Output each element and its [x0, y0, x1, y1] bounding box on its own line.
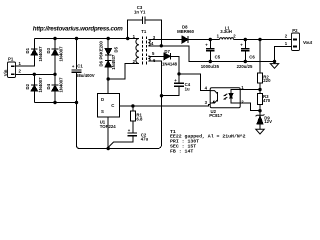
node T1 note: [170, 129, 246, 155]
svg-text:1N4937: 1N4937: [111, 54, 116, 70]
node rail-C1: [75, 37, 78, 40]
resistor R3 470: [258, 90, 271, 111]
capacitor C4 1u: [162, 74, 191, 96]
node rail-R2: [258, 38, 261, 41]
node drain: [107, 77, 110, 80]
wire bridge bottom rail: [34, 102, 76, 104]
svg-text:1N4007: 1N4007: [59, 77, 64, 93]
node C4-return: [160, 94, 163, 97]
diode D8 MBR960: [177, 25, 219, 43]
connector P1: [8, 57, 22, 78]
svg-text:D7: D7: [164, 49, 170, 54]
node bottom-C1: [75, 101, 78, 104]
diode D2 1N4007: [25, 74, 43, 102]
svg-text:P1: P1: [8, 57, 14, 62]
wire P1 pin1 to bridge: [16, 55, 35, 66]
svg-text:D6: D6: [99, 60, 104, 66]
wire secondary pin4 return: [148, 46, 274, 62]
svg-text:C: C: [111, 103, 114, 108]
diode D4 1N4007: [46, 74, 64, 102]
node return-gnd: [273, 60, 276, 63]
svg-text:Vout: Vout: [303, 40, 313, 45]
feedback winding 5-6: [148, 56, 150, 61]
diode D6 1N4937: [99, 54, 116, 79]
op U1 TOP224: [97, 94, 119, 129]
node return-C6: [244, 60, 247, 63]
node D8-C5: [209, 38, 212, 41]
svg-text:D: D: [101, 97, 104, 102]
wire opto pin1 to R2: [240, 89, 260, 91]
node R3-D9-opto: [258, 109, 261, 112]
svg-text:1N4007: 1N4007: [59, 46, 64, 62]
svg-text:PC817: PC817: [209, 113, 223, 118]
svg-text:C5: C5: [215, 54, 221, 59]
svg-text:12V: 12V: [264, 119, 272, 124]
svg-text:S: S: [101, 109, 104, 114]
node R2-R3-opto: [258, 88, 261, 91]
capacitor C1 68u/400V: [72, 39, 95, 103]
capacitor C6 220u/25: [237, 40, 256, 69]
led: [231, 90, 240, 94]
optocoupler U2 PC817: [205, 85, 245, 118]
svg-text:1000u/35: 1000u/35: [201, 64, 220, 69]
svg-text:FB : 14T: FB : 14T: [170, 148, 193, 154]
diode D3 1N4007: [46, 39, 64, 75]
wire U1 source pin: [107, 117, 109, 149]
svg-text:D1: D1: [25, 47, 30, 53]
svg-text:68u/400V: 68u/400V: [76, 73, 95, 78]
wire top rail primary side: [34, 38, 139, 40]
resistor R1 6.8: [130, 106, 143, 133]
connector P2: [285, 28, 300, 51]
svg-text:470: 470: [263, 98, 271, 103]
wire P2 pin1: [275, 47, 292, 62]
light arrows: [224, 94, 228, 96]
wire U1 control pin: [120, 105, 211, 106]
secondary winding 3-4: [148, 40, 150, 46]
diode D7 1N4148: [148, 49, 179, 74]
capacitor C2 47u: [108, 128, 148, 148]
node rail-D5: [107, 37, 110, 40]
svg-text:6.8: 6.8: [136, 116, 143, 121]
svg-text:Vin: Vin: [3, 69, 8, 76]
node pin4-C3: [160, 44, 163, 47]
node C4 top: [177, 72, 180, 75]
node rail-D3: [53, 37, 56, 40]
svg-text:MBR960: MBR960: [177, 29, 195, 34]
node rail-C3: [126, 37, 129, 40]
svg-text:D4: D4: [46, 83, 51, 89]
node pin2-D2: [33, 73, 36, 76]
capacitor C3 1n Y1: [128, 5, 162, 46]
zener D9 12V: [256, 111, 272, 130]
svg-text:1u: 1u: [185, 86, 190, 91]
wire opto pin2 to R3: [240, 103, 260, 111]
svg-text:http://restovarius.wordpress.c: http://restovarius.wordpress.com: [33, 25, 123, 32]
diode D1 1N4007: [25, 39, 43, 62]
resistor R2 220: [258, 40, 271, 90]
svg-text:T1: T1: [141, 29, 147, 34]
svg-text:47u: 47u: [141, 136, 149, 141]
svg-text:1n Y1: 1n Y1: [134, 9, 146, 14]
wire opto pin4 riser: [179, 74, 210, 91]
node bottom-D4: [53, 101, 56, 104]
svg-text:1N4007: 1N4007: [38, 46, 43, 62]
phototransistor: [210, 91, 217, 94]
wire secondary pin3 to D8: [148, 39, 182, 41]
svg-text:D3: D3: [46, 47, 51, 53]
svg-text:C1: C1: [77, 64, 83, 69]
node return-C5: [209, 60, 212, 63]
svg-text:P6KE200: P6KE200: [99, 40, 104, 59]
svg-text:220u/25: 220u/25: [237, 64, 253, 69]
wire feedback pin6: [148, 60, 161, 62]
transil D5 P6KE200: [99, 39, 119, 60]
node L1-C6: [244, 38, 247, 41]
ground output: [270, 62, 278, 69]
wire primary pin2 to drain: [108, 64, 139, 80]
transformer T1: [133, 29, 156, 66]
primary winding: [136, 39, 139, 64]
node control-R1: [131, 104, 134, 107]
node pin2-D3D4: [53, 73, 56, 76]
wire L1 to P2: [234, 39, 292, 41]
wire P1 pin2 to bridge: [16, 73, 56, 75]
svg-text:D5: D5: [113, 46, 118, 52]
svg-text:1N4148: 1N4148: [162, 61, 178, 66]
capacitor C5 1000u/35: [201, 40, 221, 69]
svg-text:220: 220: [263, 78, 271, 83]
svg-text:1N4007: 1N4007: [38, 77, 43, 93]
svg-text:C6: C6: [249, 54, 255, 59]
wire drain to U1: [107, 79, 109, 94]
svg-text:D2: D2: [25, 83, 30, 89]
core: [141, 37, 143, 66]
wire primary ground run: [77, 61, 162, 148]
svg-text:P2: P2: [292, 28, 298, 33]
inductor L1 3.3uH: [217, 25, 237, 39]
svg-text:3.3uH: 3.3uH: [220, 29, 232, 34]
node S-junction: [107, 147, 110, 150]
ground D9: [256, 129, 264, 134]
